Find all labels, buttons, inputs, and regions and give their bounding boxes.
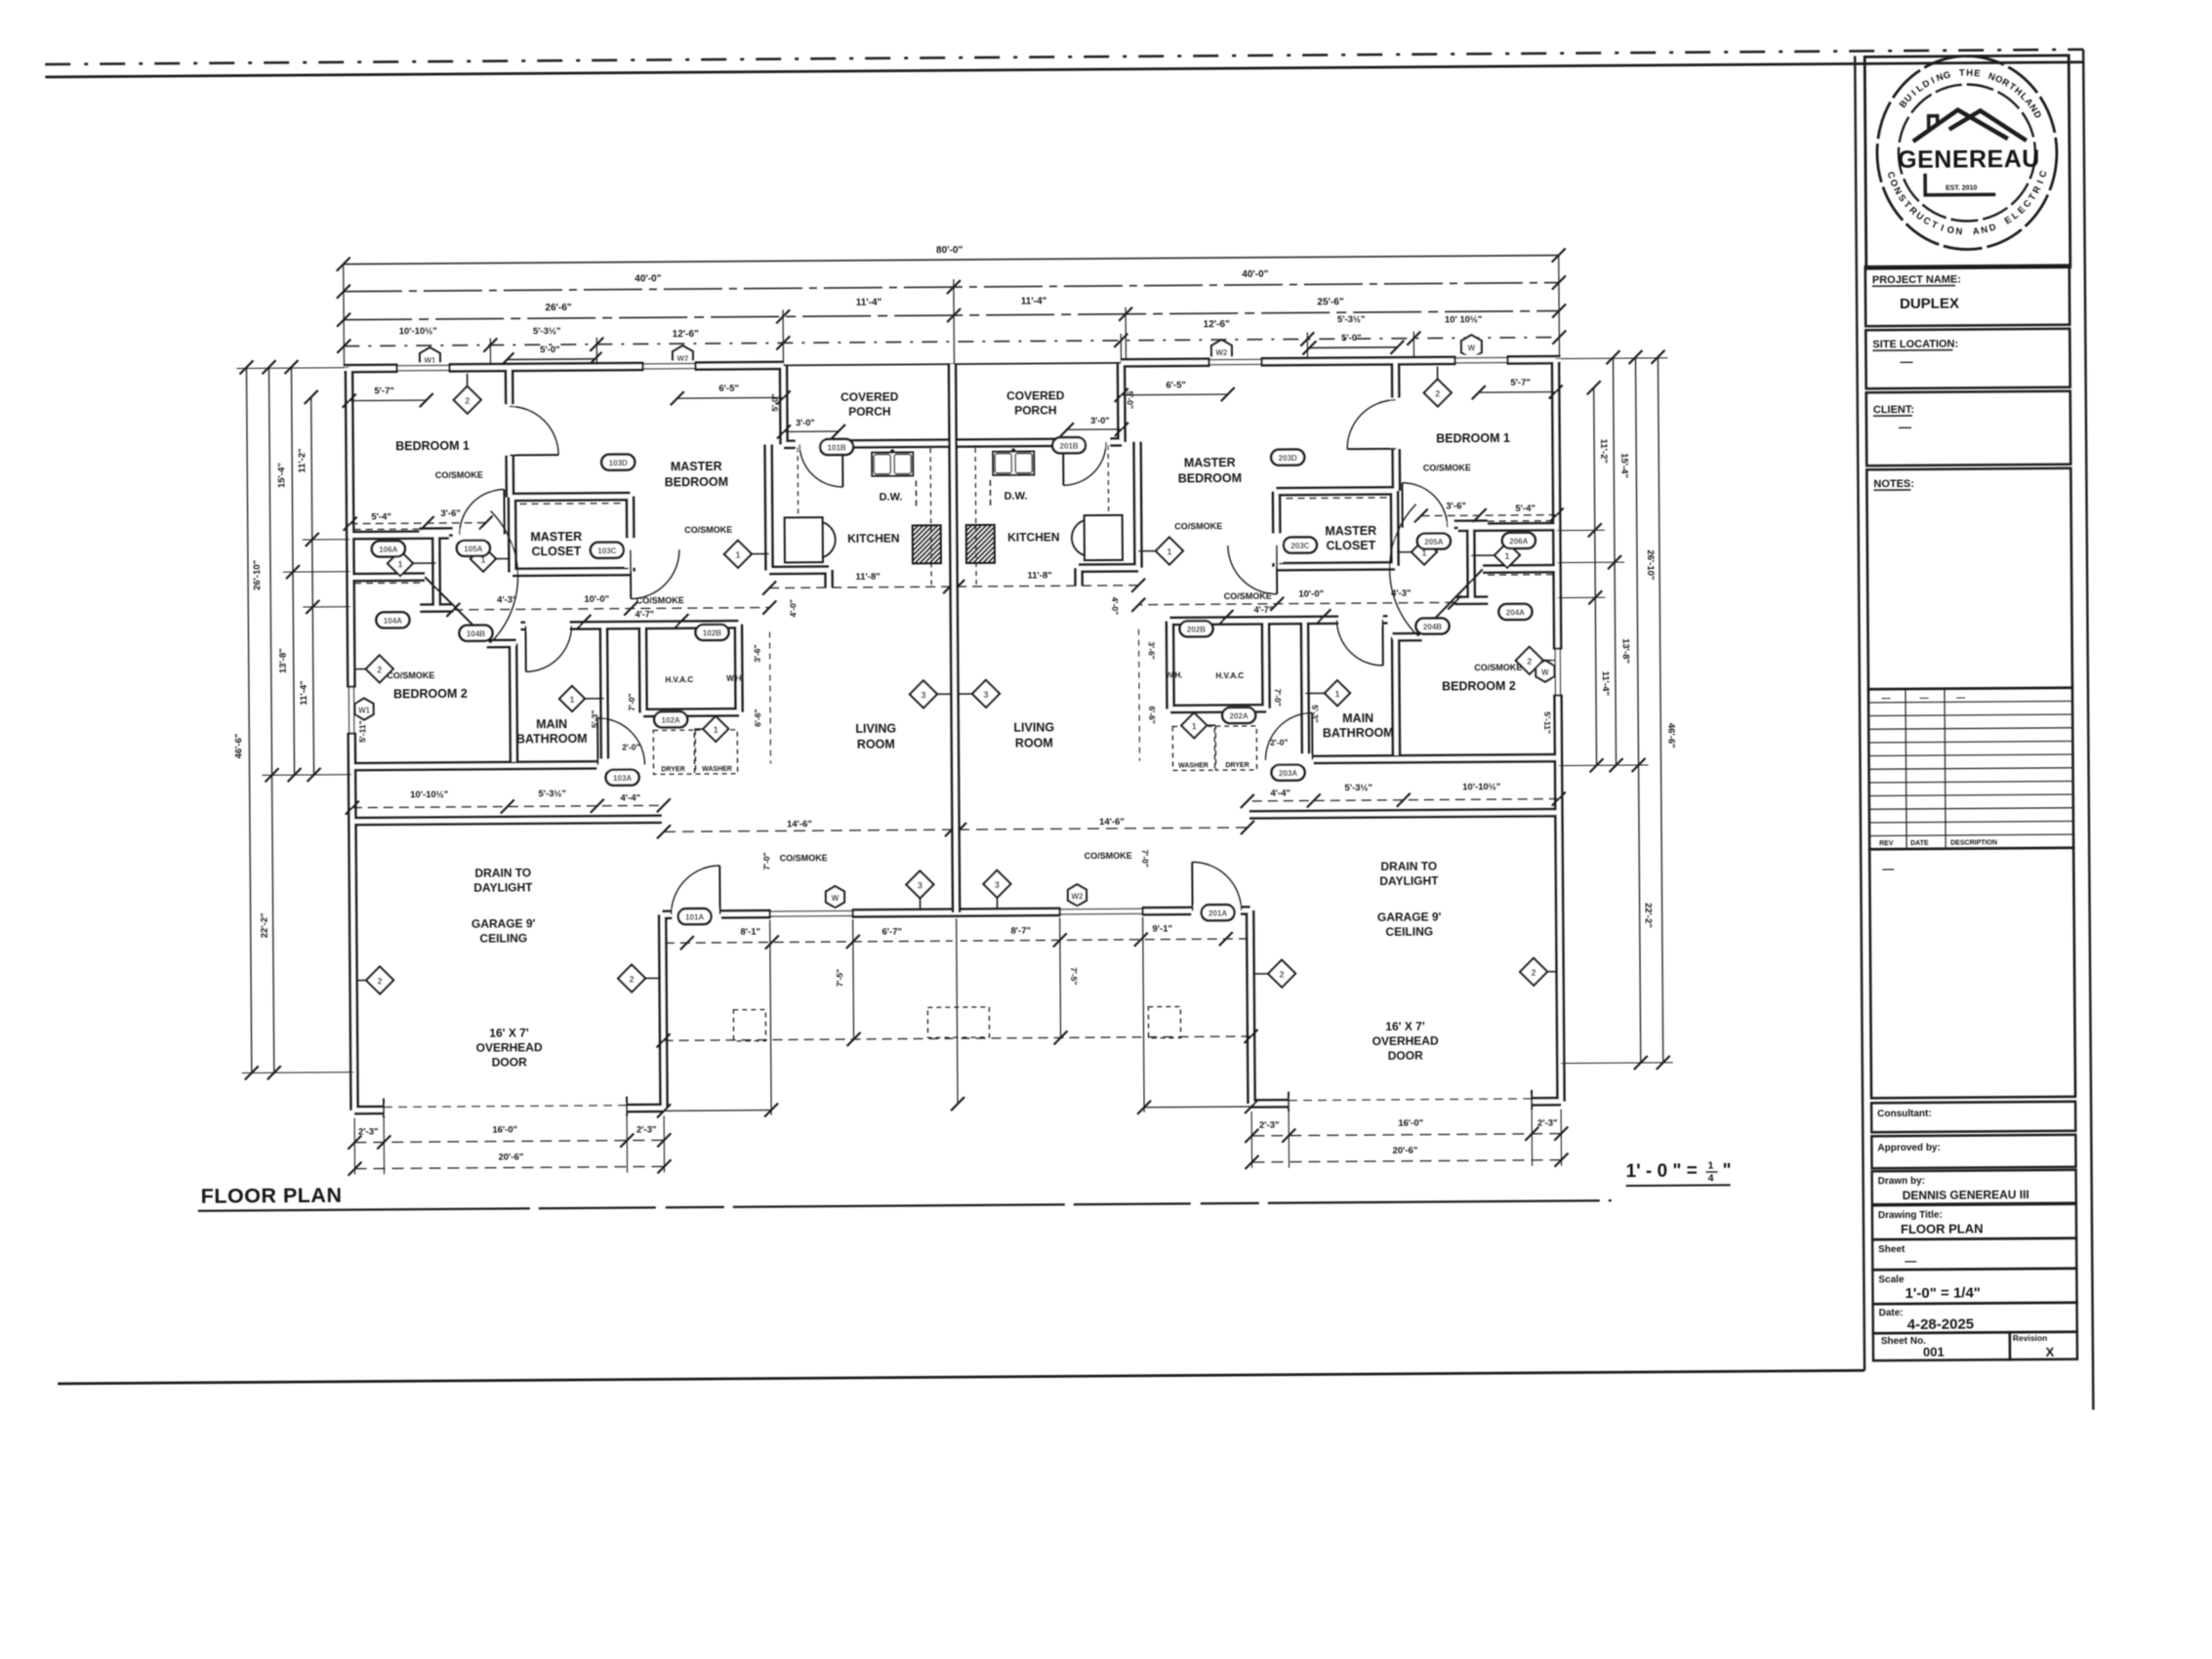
logo level tool bracket bbox=[1923, 174, 1927, 196]
logo chimney bbox=[1929, 116, 1938, 130]
left closet rod dashes bbox=[354, 528, 442, 531]
svg-text:CEILING: CEILING bbox=[479, 931, 527, 945]
svg-text:4'-0": 4'-0" bbox=[1110, 597, 1120, 615]
svg-text:—: — bbox=[1919, 693, 1928, 703]
svg-text:LIVING: LIVING bbox=[1013, 720, 1054, 734]
svg-text:4'-0": 4'-0" bbox=[788, 599, 798, 617]
left hall dim row 2 bbox=[584, 620, 681, 623]
svg-text:16' X 7': 16' X 7' bbox=[489, 1026, 529, 1039]
left rear entry door bbox=[673, 909, 721, 920]
svg-text:12'-6": 12'-6" bbox=[673, 329, 699, 340]
svg-text:80'-0": 80'-0" bbox=[936, 245, 963, 256]
site location box bbox=[1865, 329, 2069, 389]
svg-text:—: — bbox=[1881, 693, 1890, 703]
svg-text:DOOR: DOOR bbox=[492, 1055, 527, 1069]
svg-text:11'-4": 11'-4" bbox=[856, 298, 882, 308]
svg-text:1: 1 bbox=[1192, 721, 1197, 731]
svg-text:103A: 103A bbox=[613, 774, 632, 783]
right pantry dash bbox=[1107, 445, 1110, 512]
logo seal inner circle bbox=[1898, 84, 2035, 222]
svg-text:1: 1 bbox=[735, 550, 740, 560]
svg-text:10'-10½": 10'-10½" bbox=[399, 326, 437, 337]
right kitchen stub return bbox=[1121, 360, 1560, 363]
left bedroom2 diamond bbox=[354, 668, 380, 669]
left porch front edge line bbox=[784, 364, 953, 365]
right side column extension stubs bbox=[1555, 357, 1667, 360]
right refrigerator bbox=[1085, 515, 1123, 560]
svg-text:H.V.A.C: H.V.A.C bbox=[1216, 671, 1245, 680]
svg-text:7'-0": 7'-0" bbox=[1140, 849, 1150, 867]
svg-text:2: 2 bbox=[1527, 657, 1532, 667]
svg-text:CLOSET: CLOSET bbox=[1326, 539, 1375, 552]
svg-text:1: 1 bbox=[480, 555, 485, 565]
svg-text:4'-3": 4'-3" bbox=[1391, 588, 1412, 599]
svg-text:104A: 104A bbox=[384, 617, 402, 626]
svg-text:105A: 105A bbox=[464, 545, 482, 553]
right garage bottom dim rows bbox=[1251, 1134, 1561, 1136]
right bedroom2 diamond bbox=[1530, 660, 1555, 662]
svg-text:102A: 102A bbox=[662, 716, 680, 725]
svg-text:5'-11": 5'-11" bbox=[1542, 711, 1552, 734]
svg-text:11'-2": 11'-2" bbox=[1598, 439, 1609, 464]
right hall dim row 2 bbox=[1226, 615, 1324, 618]
svg-text:1: 1 bbox=[1504, 551, 1509, 561]
sheet no box bbox=[1873, 1332, 2010, 1360]
svg-text:Sheet No.: Sheet No. bbox=[1881, 1336, 1926, 1347]
svg-text:9'-1": 9'-1" bbox=[1152, 924, 1172, 935]
left bedroom1 width dim bbox=[349, 399, 427, 402]
svg-text:MAIN: MAIN bbox=[536, 717, 567, 731]
svg-text:MASTER: MASTER bbox=[1325, 524, 1376, 538]
right bedroom1 diamond bbox=[1437, 366, 1439, 392]
svg-text:2'-3": 2'-3" bbox=[1259, 1120, 1280, 1131]
svg-text:2: 2 bbox=[630, 975, 635, 985]
svg-text:Consultant:: Consultant: bbox=[1877, 1109, 1932, 1119]
left master bedroom diamond bbox=[738, 553, 769, 555]
svg-text:Scale: Scale bbox=[1878, 1275, 1905, 1285]
logo roof graphic bbox=[1913, 109, 2008, 142]
left side column extension stubs bbox=[237, 367, 349, 370]
left bedroom1 diamond bbox=[467, 374, 469, 400]
svg-text:W1: W1 bbox=[358, 707, 371, 715]
dimension row 10'-10 / 5'-3 / 12'-6 dashed bbox=[344, 338, 1559, 346]
svg-text:KITCHEN: KITCHEN bbox=[847, 532, 899, 546]
drawing title box bbox=[1872, 1204, 2076, 1240]
svg-text:DUPLEX: DUPLEX bbox=[1900, 296, 1959, 312]
svg-text:T: T bbox=[1959, 67, 1966, 78]
svg-text:H: H bbox=[1966, 67, 1973, 78]
svg-text:DRAIN TO: DRAIN TO bbox=[1380, 860, 1437, 873]
left door tags (ovals) bbox=[372, 541, 405, 556]
svg-text:MASTER: MASTER bbox=[530, 530, 582, 544]
page border top solid bbox=[45, 62, 2083, 77]
svg-text:6'-6": 6'-6" bbox=[753, 708, 762, 726]
svg-text:1: 1 bbox=[1167, 546, 1171, 556]
right laundry dryer/washer boxes bbox=[1215, 726, 1256, 770]
svg-text:5'-3": 5'-3" bbox=[1310, 705, 1320, 722]
left front windows bbox=[396, 362, 449, 373]
right dishwasher dash bbox=[989, 480, 991, 509]
consultant box bbox=[1871, 1102, 2075, 1133]
svg-text:EST. 2010: EST. 2010 bbox=[1946, 184, 1977, 191]
svg-text:203A: 203A bbox=[1279, 769, 1297, 778]
svg-text:REV: REV bbox=[1879, 840, 1894, 847]
center rear diamonds bbox=[919, 884, 921, 909]
center post footing dashed bbox=[927, 1007, 989, 1037]
svg-text:COVERED: COVERED bbox=[840, 390, 899, 404]
left rear extension verticals bbox=[770, 920, 771, 1115]
svg-text:46'-6": 46'-6" bbox=[233, 734, 244, 759]
notes box bbox=[1866, 468, 2072, 690]
right bedroom1 closet dims bbox=[1421, 515, 1557, 516]
dimension row 5'-0 short right bbox=[1309, 346, 1397, 349]
svg-text:7'-0": 7'-0" bbox=[627, 693, 636, 710]
right rear window bbox=[1060, 906, 1143, 917]
window tag W1 top bbox=[420, 347, 440, 371]
svg-text:1: 1 bbox=[714, 725, 718, 735]
right master closet door bbox=[1271, 534, 1283, 563]
svg-text:CO/SMOKE: CO/SMOKE bbox=[636, 595, 684, 605]
svg-text:CO/SMOKE: CO/SMOKE bbox=[780, 853, 828, 863]
right bedroom1 door bbox=[1390, 398, 1402, 449]
svg-text:3'-6": 3'-6" bbox=[1446, 501, 1466, 511]
svg-text:NOTES:: NOTES: bbox=[1873, 478, 1914, 490]
svg-text:4'-4": 4'-4" bbox=[1270, 789, 1290, 799]
svg-text:PORCH: PORCH bbox=[848, 405, 890, 419]
svg-text:CO/SMOKE: CO/SMOKE bbox=[1174, 521, 1222, 531]
right bedroom1 width dim bbox=[1479, 391, 1556, 394]
right closet rod dashes bbox=[1465, 520, 1553, 523]
svg-text:5'-3": 5'-3" bbox=[590, 710, 599, 728]
right bedroom1 hall door arc bbox=[1406, 521, 1453, 533]
svg-text:20'-6": 20'-6" bbox=[1392, 1146, 1417, 1156]
right laundry door arc bbox=[1268, 753, 1313, 765]
dimension row 5'-0 short left bbox=[507, 358, 594, 361]
svg-text:102B: 102B bbox=[703, 628, 721, 637]
svg-text:BATHROOM: BATHROOM bbox=[516, 732, 588, 747]
svg-text:10' 10½": 10' 10½" bbox=[1445, 314, 1483, 325]
svg-text:4'-4": 4'-4" bbox=[620, 792, 640, 803]
svg-text:5'-0": 5'-0" bbox=[770, 393, 780, 411]
revision box bbox=[2010, 1332, 2077, 1360]
left dishwasher dash bbox=[915, 480, 917, 509]
svg-text:22'-2": 22'-2" bbox=[260, 912, 270, 938]
svg-text:KITCHEN: KITCHEN bbox=[1007, 530, 1059, 544]
window tag W2 top right bbox=[1211, 340, 1232, 363]
sheet box bbox=[1872, 1238, 2076, 1271]
svg-text:5'-0": 5'-0" bbox=[1341, 333, 1362, 344]
right kitchen sink bbox=[993, 452, 1034, 475]
left kitchen sink bbox=[872, 452, 913, 475]
right porch entry door bbox=[1061, 436, 1110, 448]
svg-text:40'-0": 40'-0" bbox=[635, 273, 661, 284]
svg-text:2: 2 bbox=[1435, 388, 1440, 398]
svg-text:PROJECT NAME:: PROJECT NAME: bbox=[1872, 274, 1961, 287]
svg-text:11'-8": 11'-8" bbox=[1027, 570, 1051, 581]
svg-text:BEDROOM 1: BEDROOM 1 bbox=[1436, 431, 1510, 446]
svg-text:6'-7": 6'-7" bbox=[881, 927, 902, 938]
left kitchen stub return bbox=[345, 365, 784, 368]
svg-text:13'-8": 13'-8" bbox=[278, 648, 289, 673]
right garage diamonds bbox=[1534, 971, 1557, 973]
logo box bbox=[1864, 56, 2070, 269]
extension lines from top rows bbox=[343, 264, 346, 369]
svg-text:CO/SMOKE: CO/SMOKE bbox=[684, 525, 732, 535]
right living room dim bbox=[960, 828, 1248, 829]
svg-text:103D: 103D bbox=[609, 459, 628, 467]
svg-text:—: — bbox=[1905, 1254, 1916, 1268]
svg-text:W2: W2 bbox=[1215, 348, 1228, 357]
svg-text:10'-10½": 10'-10½" bbox=[410, 789, 448, 800]
left garage door opening bbox=[384, 1103, 627, 1116]
dimension row 26'-6 / 11'-4 / 11'-4 / 25'-6 bbox=[344, 311, 1559, 320]
svg-text:6'-5": 6'-5" bbox=[718, 384, 739, 394]
left refrigerator bbox=[785, 517, 823, 562]
left bedroom1 door bbox=[504, 404, 515, 455]
blank box with dash bbox=[1869, 848, 2075, 1099]
drawn by box bbox=[1872, 1170, 2076, 1205]
dimension row 40'-0 left/right bbox=[344, 283, 1559, 292]
svg-text:2: 2 bbox=[1532, 968, 1536, 978]
svg-text:CO/SMOKE: CO/SMOKE bbox=[1474, 663, 1522, 672]
svg-text:Revision: Revision bbox=[2013, 1333, 2048, 1343]
svg-text:10'-0": 10'-0" bbox=[584, 594, 609, 605]
right rear extension verticals bbox=[1143, 917, 1144, 1113]
svg-text:Drawn by:: Drawn by: bbox=[1878, 1176, 1925, 1187]
left living room diamond bbox=[923, 693, 955, 695]
svg-text:GENEREAU: GENEREAU bbox=[1898, 145, 2040, 174]
svg-text:CO/SMOKE: CO/SMOKE bbox=[1085, 851, 1132, 861]
svg-text:103C: 103C bbox=[597, 546, 616, 555]
svg-text:3: 3 bbox=[918, 880, 922, 890]
right bedroom zone bottom dim row bbox=[1248, 799, 1559, 801]
svg-text:BATHROOM: BATHROOM bbox=[1323, 726, 1394, 741]
svg-text:5'-3½": 5'-3½" bbox=[1344, 783, 1372, 793]
svg-text:14'-6": 14'-6" bbox=[1099, 817, 1125, 828]
left master bedroom door bbox=[630, 550, 632, 599]
left laundry dryer/washer boxes bbox=[653, 730, 694, 774]
svg-text:6'-6": 6'-6" bbox=[1147, 706, 1157, 723]
party wall between units bbox=[953, 364, 957, 912]
client box bbox=[1866, 391, 2071, 466]
svg-text:5'-4": 5'-4" bbox=[371, 511, 391, 522]
svg-text:LIVING: LIVING bbox=[855, 722, 896, 736]
right side dimension column bbox=[1658, 357, 1662, 1063]
svg-text:CLOSET: CLOSET bbox=[531, 545, 581, 558]
right closet diamonds bbox=[1471, 554, 1507, 556]
approved by box bbox=[1871, 1135, 2075, 1169]
right kitchen counter dash bbox=[975, 448, 976, 585]
svg-text:26'-10": 26'-10" bbox=[252, 560, 263, 590]
svg-text:5'-7": 5'-7" bbox=[374, 385, 394, 396]
svg-text:H.V.A.C: H.V.A.C bbox=[666, 675, 694, 684]
right side wall window bbox=[1552, 649, 1563, 696]
svg-text:14'-6": 14'-6" bbox=[787, 819, 812, 829]
right master bedroom door bbox=[1276, 546, 1278, 594]
left rear window tag bbox=[826, 886, 844, 908]
svg-text:1: 1 bbox=[397, 559, 402, 569]
svg-text:5'-3½": 5'-3½" bbox=[1337, 314, 1366, 325]
right porch 3'-0 dim bbox=[1067, 428, 1122, 430]
left master closet door bbox=[625, 539, 636, 568]
left laundry diamond bbox=[694, 728, 716, 730]
svg-text:4'-7": 4'-7" bbox=[635, 609, 654, 619]
svg-text:CEILING: CEILING bbox=[1385, 925, 1433, 939]
svg-text:22'-2": 22'-2" bbox=[1643, 903, 1654, 928]
svg-text:2'-3": 2'-3" bbox=[1537, 1118, 1558, 1129]
svg-text:X: X bbox=[2046, 1345, 2055, 1359]
left corridor dashed dim bbox=[769, 632, 772, 764]
svg-text:26'-10": 26'-10" bbox=[1645, 549, 1656, 580]
right garage door opening bbox=[1289, 1096, 1532, 1110]
svg-text:5'-4": 5'-4" bbox=[1515, 504, 1536, 514]
svg-text:D.W.: D.W. bbox=[880, 492, 903, 504]
svg-text:DRYER: DRYER bbox=[661, 766, 684, 773]
svg-text:2: 2 bbox=[1280, 970, 1285, 980]
svg-text:10'-0": 10'-0" bbox=[1298, 588, 1324, 599]
svg-text:4-28-2025: 4-28-2025 bbox=[1907, 1315, 1975, 1333]
svg-text:W: W bbox=[1541, 668, 1549, 677]
right rear dims row bbox=[961, 939, 1249, 941]
svg-text:7'-0": 7'-0" bbox=[1273, 688, 1283, 706]
svg-text:FLOOR PLAN: FLOOR PLAN bbox=[201, 1184, 343, 1208]
svg-text:PORCH: PORCH bbox=[1014, 403, 1056, 417]
svg-text:Drawing Title:: Drawing Title: bbox=[1878, 1210, 1943, 1221]
left garage bottom dim rows bbox=[354, 1140, 664, 1142]
revision table bbox=[1868, 688, 2073, 850]
left bathroom door bbox=[525, 620, 569, 631]
left garage diamonds bbox=[356, 979, 380, 981]
left bedroom1 hall door arc bbox=[455, 529, 502, 541]
svg-text:Approved by:: Approved by: bbox=[1877, 1143, 1941, 1153]
svg-text:3'-6": 3'-6" bbox=[1147, 641, 1157, 659]
svg-text:8'-7": 8'-7" bbox=[1010, 926, 1031, 937]
svg-text:3'-6": 3'-6" bbox=[440, 508, 461, 519]
svg-text:WASHER: WASHER bbox=[1178, 762, 1208, 769]
svg-text:40'-0": 40'-0" bbox=[1242, 269, 1268, 280]
svg-text:201A: 201A bbox=[1208, 910, 1227, 918]
left side dimension column bbox=[247, 367, 252, 1072]
svg-text:WASHER: WASHER bbox=[702, 766, 732, 773]
svg-text:DRAIN TO: DRAIN TO bbox=[474, 866, 531, 879]
svg-text:OVERHEAD: OVERHEAD bbox=[476, 1040, 543, 1055]
svg-text:5'-7": 5'-7" bbox=[1510, 378, 1531, 388]
svg-text:OVERHEAD: OVERHEAD bbox=[1372, 1034, 1439, 1049]
right porch front edge line bbox=[953, 363, 1122, 364]
svg-text:6'-5": 6'-5" bbox=[1166, 380, 1186, 390]
svg-text:16'-0": 16'-0" bbox=[492, 1124, 517, 1135]
right bedroom2 closet doors bbox=[1417, 569, 1483, 635]
left hall dim row bbox=[453, 608, 769, 610]
svg-text:A: A bbox=[1972, 226, 1980, 238]
svg-text:W: W bbox=[1468, 344, 1476, 352]
svg-text:106A: 106A bbox=[379, 546, 397, 554]
svg-text:11'-4": 11'-4" bbox=[1021, 296, 1047, 306]
left bathroom diamond bbox=[572, 698, 604, 700]
center rear extension line bbox=[957, 918, 958, 1104]
svg-text:202A: 202A bbox=[1230, 711, 1249, 720]
svg-text:W.H.: W.H. bbox=[726, 674, 743, 683]
svg-text:10'-10½": 10'-10½" bbox=[1462, 782, 1500, 792]
svg-text:1: 1 bbox=[1707, 1159, 1713, 1171]
svg-text:—: — bbox=[1882, 862, 1894, 875]
svg-text:4'-3": 4'-3" bbox=[497, 594, 517, 605]
svg-text:2'-3": 2'-3" bbox=[636, 1124, 657, 1135]
svg-text:—: — bbox=[1956, 693, 1965, 703]
right master bedroom diamond bbox=[1138, 550, 1169, 552]
right wall window tag side bbox=[1536, 661, 1554, 682]
svg-text:7'-0": 7'-0" bbox=[761, 852, 771, 870]
left laundry door arc bbox=[596, 758, 641, 770]
svg-text:5'-3½": 5'-3½" bbox=[538, 789, 566, 799]
svg-text:15'-4": 15'-4" bbox=[1618, 453, 1629, 478]
project name box bbox=[1865, 265, 2069, 327]
svg-text:BEDROOM 2: BEDROOM 2 bbox=[393, 687, 468, 702]
svg-text:W.H.: W.H. bbox=[1166, 670, 1182, 679]
left kitchen dim row bbox=[769, 587, 950, 587]
svg-text:3'-0": 3'-0" bbox=[1090, 416, 1109, 425]
svg-text:2'-0": 2'-0" bbox=[1270, 738, 1288, 748]
svg-text:DAYLIGHT: DAYLIGHT bbox=[1379, 874, 1439, 888]
svg-text:13'-8": 13'-8" bbox=[1620, 638, 1631, 664]
svg-text:25'-6": 25'-6" bbox=[1317, 297, 1343, 307]
svg-text:11'-8": 11'-8" bbox=[855, 572, 880, 583]
svg-text:SITE LOCATION:: SITE LOCATION: bbox=[1872, 339, 1958, 351]
svg-text:BEDROOM: BEDROOM bbox=[665, 475, 728, 489]
svg-text:1: 1 bbox=[569, 695, 574, 705]
svg-text:101A: 101A bbox=[685, 913, 704, 922]
svg-text:26'-6": 26'-6" bbox=[545, 303, 571, 313]
window tag W top right bbox=[1461, 335, 1482, 358]
svg-text:20'-6": 20'-6" bbox=[499, 1152, 524, 1162]
svg-text:3: 3 bbox=[921, 690, 925, 700]
svg-text:DATE: DATE bbox=[1910, 840, 1929, 847]
left closet diamonds bbox=[400, 562, 436, 564]
svg-text:Sheet: Sheet bbox=[1878, 1244, 1905, 1255]
svg-text:GARAGE 9': GARAGE 9' bbox=[471, 916, 536, 930]
left porch 3'-0 dim bbox=[784, 430, 839, 432]
svg-text:BEDROOM 2: BEDROOM 2 bbox=[1442, 679, 1516, 694]
left rear dims row bbox=[665, 941, 953, 943]
svg-text:2'-3": 2'-3" bbox=[358, 1126, 379, 1137]
right front right dim 6'-5 bbox=[1122, 393, 1228, 396]
left bedroom1 closet dims bbox=[350, 523, 486, 524]
svg-text:206A: 206A bbox=[1509, 537, 1528, 546]
svg-text:11'-4": 11'-4" bbox=[299, 680, 309, 705]
svg-text:104B: 104B bbox=[467, 629, 485, 638]
right bathroom diamond bbox=[1305, 692, 1337, 694]
svg-text:Date:: Date: bbox=[1879, 1308, 1904, 1318]
svg-text:11'-4": 11'-4" bbox=[1600, 671, 1611, 696]
svg-text:203C: 203C bbox=[1290, 542, 1309, 550]
svg-text:3: 3 bbox=[983, 690, 988, 700]
svg-text:16'-0": 16'-0" bbox=[1398, 1118, 1423, 1129]
svg-text:2'-0": 2'-0" bbox=[622, 742, 639, 751]
svg-text:GARAGE 9': GARAGE 9' bbox=[1377, 910, 1442, 923]
svg-text:5'-3½": 5'-3½" bbox=[533, 326, 561, 337]
svg-text:CLIENT:: CLIENT: bbox=[1873, 404, 1914, 416]
svg-text:MAIN: MAIN bbox=[1342, 711, 1373, 725]
svg-text:BEDROOM 1: BEDROOM 1 bbox=[395, 439, 470, 454]
svg-text:ROOM: ROOM bbox=[857, 738, 895, 751]
svg-text:1' - 0 " =: 1' - 0 " = bbox=[1626, 1161, 1698, 1183]
svg-text:001: 001 bbox=[1923, 1345, 1945, 1359]
title block outer column bbox=[1855, 56, 1864, 1370]
left range with hatch bbox=[913, 525, 941, 563]
left porch entry door bbox=[796, 438, 844, 450]
left bedroom2 closet doors bbox=[425, 577, 490, 643]
right rear entry door bbox=[1192, 905, 1241, 916]
